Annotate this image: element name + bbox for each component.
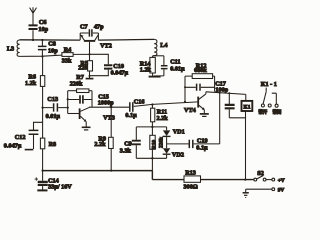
svg-text:0.1µ: 0.1µ	[196, 144, 208, 151]
svg-text:VT3: VT3	[103, 114, 115, 121]
transistor VT3	[68, 107, 90, 126]
svg-text:R4: R4	[64, 46, 72, 53]
wire: R6 column	[42, 57, 44, 76]
svg-text:0.047µ: 0.047µ	[111, 69, 129, 76]
ground (below C14)	[37, 189, 47, 191]
svg-text:0.1µ: 0.1µ	[125, 112, 137, 119]
svg-text:C8: C8	[48, 40, 56, 47]
resistor R4	[62, 53, 90, 57]
svg-text:常闭: 常闭	[273, 108, 282, 115]
capacitor C10	[90, 54, 113, 75]
resistor R12	[185, 74, 215, 102]
wire: VT4 collector rail	[206, 92, 246, 95]
wire: VT3 collector output line	[89, 102, 198, 107]
svg-text:47p: 47p	[94, 24, 104, 31]
capacitor C13	[43, 103, 68, 111]
wire: R8 column	[42, 108, 44, 139]
wire: L3 bottom line	[20, 55, 62, 56]
node: R4 / emitter junction	[88, 53, 90, 55]
svg-text:C11: C11	[170, 58, 180, 65]
svg-text:C12: C12	[15, 134, 26, 141]
ground (VT3 emitter)	[82, 126, 91, 128]
svg-text:0.01µ: 0.01µ	[46, 113, 61, 120]
wire: +V bus right section	[152, 179, 254, 181]
svg-text:C13: C13	[47, 96, 58, 103]
node: supply bus left junction	[42, 170, 44, 172]
svg-text:0.047µ: 0.047µ	[4, 143, 22, 150]
svg-text:K1: K1	[244, 104, 251, 110]
svg-text:3.3k: 3.3k	[120, 148, 132, 155]
svg-text:S2: S2	[257, 170, 264, 177]
svg-text:C9: C9	[124, 141, 132, 148]
node: C13 junction	[42, 107, 44, 109]
svg-text:10p: 10p	[48, 48, 58, 55]
svg-text:220k: 220k	[158, 137, 164, 148]
wire: detector bottom rail	[136, 157, 166, 159]
svg-text:220k: 220k	[70, 80, 83, 87]
switch S2	[254, 176, 275, 182]
node: R5 bottom / C10 bottom	[89, 75, 91, 77]
node	[110, 170, 112, 172]
wire: relay bottom rail	[229, 117, 245, 119]
svg-text:10p: 10p	[38, 26, 48, 33]
inductor L4	[98, 39, 157, 55]
diode VD1	[163, 127, 171, 144]
resistor R6	[40, 76, 44, 108]
capacitor C9	[132, 127, 141, 158]
capacitor C16	[130, 102, 133, 111]
capacitor C6	[29, 25, 38, 40]
node	[219, 92, 221, 94]
capacitor C14 (electrolytic)	[35, 171, 48, 190]
svg-text:1.2k: 1.2k	[140, 66, 152, 73]
relay contact K1-1	[261, 88, 278, 108]
node: C8 bottom junction	[41, 55, 43, 57]
resistor R13	[184, 176, 201, 182]
node: R9 junction	[110, 106, 112, 108]
node: R11 junction	[151, 103, 153, 105]
resistor R10	[150, 127, 155, 158]
wire: detector bottom drop	[151, 158, 153, 179]
resistor R14	[150, 56, 155, 76]
node: R12/C17 column tap	[184, 86, 186, 88]
wire: +V bus step	[151, 171, 153, 180]
capacitor C8	[38, 40, 47, 56]
resistor R7	[68, 89, 92, 93]
ground (battery negative)	[243, 189, 249, 197]
wire: detector top rail	[136, 126, 166, 128]
svg-text:VD1: VD1	[173, 129, 185, 136]
svg-text:+V: +V	[278, 178, 285, 184]
wire: feedback right column	[91, 91, 93, 108]
resistor R8	[40, 138, 44, 171]
transistor VT4	[198, 92, 206, 113]
svg-text:2.2k: 2.2k	[157, 115, 169, 122]
svg-text:VT2: VT2	[100, 43, 112, 50]
inductor L3	[17, 40, 20, 56]
svg-text:C19: C19	[197, 137, 208, 144]
wire	[67, 91, 69, 114]
ground (VT4 emitter)	[200, 113, 209, 115]
svg-text:L3: L3	[7, 45, 14, 52]
ground (below R5)	[86, 78, 94, 80]
node: C15 tap	[67, 98, 69, 100]
svg-text:R8: R8	[49, 141, 57, 148]
svg-text:VT4: VT4	[184, 107, 196, 114]
capacitor C11	[154, 56, 168, 76]
capacitor C18 (electrolytic by relay)	[225, 93, 235, 118]
antenna	[30, 7, 37, 25]
svg-text:R10: R10	[151, 140, 157, 150]
ground (below R14/C11)	[149, 76, 161, 78]
wire: battery negative rail	[246, 188, 272, 190]
relay K1	[242, 94, 253, 179]
capacitor C19	[167, 93, 220, 148]
node: C8 top junction	[41, 39, 43, 41]
svg-text:L4: L4	[160, 42, 167, 49]
node: antenna/C6 junction	[32, 39, 34, 41]
svg-text:0.01µ: 0.01µ	[170, 65, 185, 72]
svg-text:常开: 常开	[258, 108, 267, 115]
svg-text:300Ω: 300Ω	[184, 183, 198, 190]
svg-text:VD2: VD2	[172, 152, 184, 159]
node: R12 column / base line junction	[184, 101, 186, 103]
svg-text:1.2k: 1.2k	[25, 80, 37, 87]
svg-text:33µ/ 16V: 33µ/ 16V	[48, 183, 72, 190]
resistor R9	[109, 107, 114, 170]
capacitor C15	[68, 95, 92, 103]
svg-text:K1 - 1: K1 - 1	[261, 81, 277, 88]
wire: +V bus (left section)	[43, 170, 153, 172]
capacitor C17	[185, 84, 215, 91]
svg-text:R13: R13	[185, 170, 196, 177]
wire: top bus (tank line)	[20, 39, 81, 41]
capacitor C12	[29, 122, 43, 149]
node: C13 tap	[67, 107, 69, 109]
node: detector bottom	[151, 157, 153, 159]
svg-text:C16: C16	[134, 98, 145, 105]
transistor VT2	[80, 33, 98, 54]
svg-text:33k: 33k	[62, 58, 72, 65]
capacitor C7	[80, 29, 98, 36]
ground (below C12)	[25, 149, 34, 151]
wire: L4 bottom node	[153, 55, 164, 57]
svg-text:2.2k: 2.2k	[94, 141, 106, 148]
svg-text:680k: 680k	[194, 67, 207, 74]
node: S2 junction	[244, 179, 246, 181]
diode VD2	[163, 144, 171, 158]
svg-text:9V: 9V	[278, 187, 285, 193]
svg-text:C7: C7	[80, 24, 88, 31]
resistor R5	[88, 54, 93, 78]
svg-text:1000p: 1000p	[98, 100, 114, 107]
svg-text:220: 220	[78, 65, 87, 72]
node: detector top	[151, 126, 153, 128]
resistor R11	[151, 105, 155, 127]
